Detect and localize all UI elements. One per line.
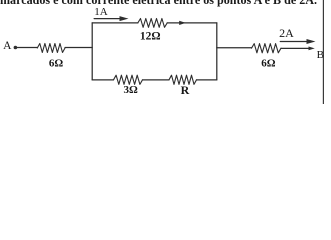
current arrow 2A head (307, 39, 316, 44)
current arrow 2A shaft (280, 41, 307, 43)
node A dot (14, 46, 18, 50)
svg-text:6Ω: 6Ω (49, 58, 64, 70)
resistor R_right 6ohm (252, 44, 282, 53)
right page border line (322, 0, 324, 104)
wire: top branch left segment (92, 22, 138, 24)
svg-text:2A: 2A (279, 26, 294, 40)
wire right resistor to node B (281, 47, 311, 49)
svg-text:12Ω: 12Ω (140, 30, 161, 42)
wire: bottom branch left segment (92, 79, 113, 81)
resistor R3 3ohm (114, 75, 143, 84)
wire right junction to right resistor (217, 47, 252, 49)
wire A to left resistor (17, 47, 37, 49)
svg-text:1A: 1A (94, 6, 108, 18)
wire: bottom branch right segment (197, 79, 217, 81)
resistor R2 12ohm (138, 19, 167, 28)
svg-text:B: B (317, 49, 324, 61)
current arrow 1A shaft (94, 18, 121, 20)
current arrow 1A head (120, 16, 129, 21)
wire left resistor to left junction (65, 47, 92, 49)
svg-text:R: R (181, 83, 190, 97)
svg-text:3Ω: 3Ω (124, 84, 139, 96)
wire: top branch right segment (167, 22, 217, 24)
wire: right vertical of parallel section (216, 23, 218, 80)
resistor R_left 6ohm (37, 44, 65, 53)
arrowhead at node B end of wire (309, 47, 315, 51)
arrowhead on top branch wire (179, 21, 186, 25)
svg-text:marcados e com corrente elétri: marcados e com corrente elétrica entre o… (0, 0, 317, 7)
wire: left vertical of parallel section (91, 23, 93, 80)
svg-text:A: A (3, 40, 12, 52)
resistor R (unknown) (169, 75, 197, 84)
svg-text:6Ω: 6Ω (261, 58, 276, 70)
wire: bottom branch middle segment (143, 79, 170, 81)
